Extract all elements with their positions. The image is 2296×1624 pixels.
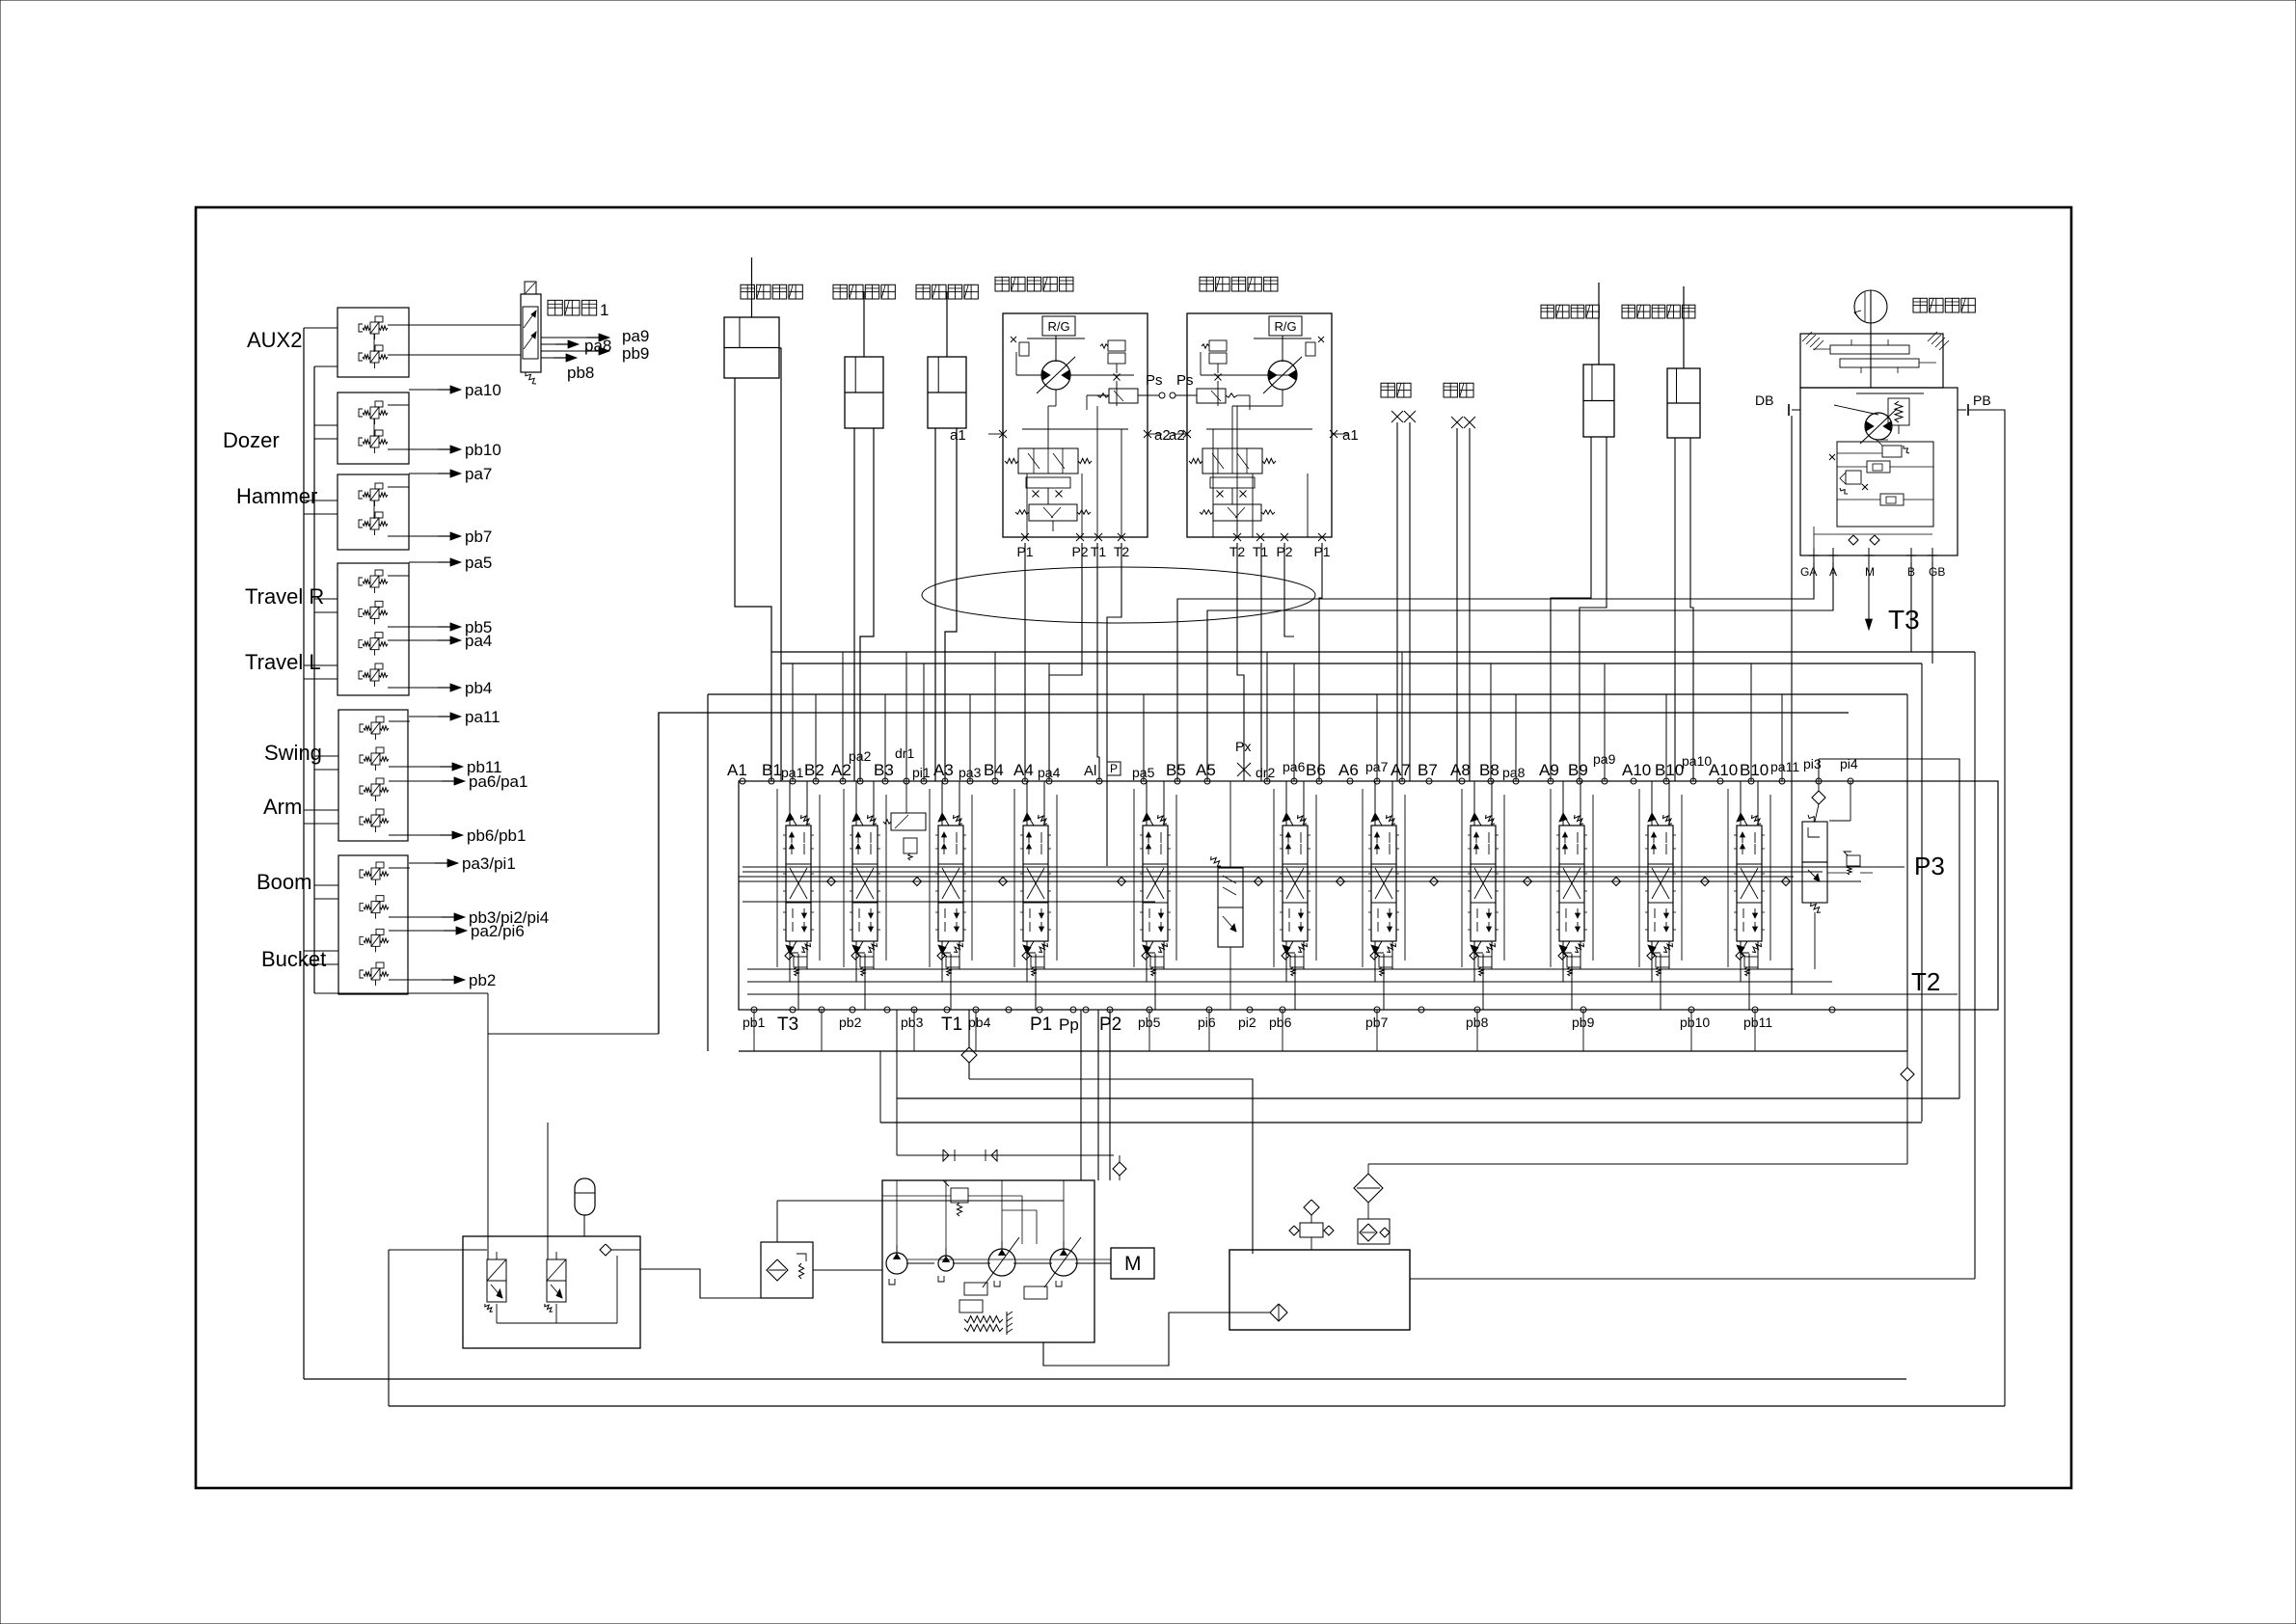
Px cross (1237, 763, 1251, 776)
travel shuttle valve (1029, 504, 1077, 521)
svg-text:pa5: pa5 (465, 554, 492, 572)
boom cylinder lines (853, 428, 855, 781)
travel brake valve (1209, 340, 1227, 351)
swing ports GA A M B GB (1800, 527, 1945, 579)
bus check diamonds (827, 878, 1791, 886)
svg-text:Ps: Ps (1176, 372, 1194, 389)
swing priority valve pi3 pi4 (1802, 781, 1873, 969)
svg-text:Pp: Pp (1059, 1015, 1079, 1034)
bottom bus 1458 (389, 1405, 2005, 1407)
pilot valve block SwingArm (338, 710, 408, 841)
tank breather (1289, 1200, 1334, 1250)
label left-travel-motor (CJK) (995, 277, 1009, 291)
arm cylinder lines (934, 428, 936, 781)
pilot output pb3/pi2/pi4 (409, 908, 549, 927)
svg-text:P2: P2 (1099, 1015, 1121, 1035)
breaker drop lines (1396, 422, 1398, 781)
T3 drain arrow (1868, 562, 1870, 625)
svg-text:GB: GB (1929, 565, 1945, 579)
solenoid valve 1 (487, 1259, 506, 1281)
svg-text:B6: B6 (1306, 761, 1326, 779)
svg-text:Ps: Ps (1146, 372, 1163, 389)
svg-text:dr1: dr1 (895, 745, 914, 761)
blade cylinder lines (1674, 438, 1676, 781)
svg-text:B2: B2 (804, 761, 824, 779)
travel motor relief stub (1019, 342, 1029, 356)
main pump 1 (988, 1249, 1015, 1276)
label breaker (CJK) (1381, 383, 1394, 397)
valve spool V10 dozer (1645, 813, 1676, 954)
valve spool V3 arm (935, 813, 966, 954)
label bucket-cylinder (CJK) (741, 284, 754, 299)
tilt cylinder lines (1551, 437, 1591, 781)
spool V1 boom stem wires (789, 781, 791, 826)
travel motor ports (1016, 533, 1330, 559)
svg-text:a1: a1 (1342, 427, 1359, 444)
svg-text:pi4: pi4 (1840, 756, 1858, 771)
svg-text:GA: GA (1800, 565, 1817, 579)
right travel motor box (1187, 313, 1332, 537)
svg-text:T1: T1 (1091, 544, 1107, 559)
manifold lower bus lines (747, 968, 1794, 970)
svg-text:pb6/pb1: pb6/pb1 (467, 826, 526, 845)
svg-text:pb2: pb2 (469, 971, 496, 989)
pb drop wires below manifold (754, 1010, 1755, 1051)
svg-text:DB: DB (1755, 392, 1773, 408)
label swing-motor (CJK) (1913, 298, 1927, 312)
svg-text:Dozer: Dozer (223, 428, 280, 452)
pump internal wires (897, 1180, 1064, 1257)
spool V4 travel-left stem wires (1026, 781, 1028, 826)
svg-text:A1: A1 (727, 761, 747, 779)
svg-text:R/G: R/G (1047, 319, 1069, 334)
svg-text:pb4: pb4 (465, 679, 492, 697)
svg-text:P3: P3 (1914, 852, 1945, 880)
left travel motor box (1003, 313, 1148, 537)
pilot output pa2/pi6 (409, 922, 525, 940)
accumulator manifold block (463, 1236, 640, 1348)
svg-text:pa3/pi1: pa3/pi1 (462, 854, 516, 873)
hydraulic tank (1229, 1250, 1410, 1330)
valve spool V5 swing (1140, 813, 1171, 954)
pump swash ground (964, 1312, 1013, 1335)
svg-text:B4: B4 (984, 761, 1004, 779)
svg-text:pb11: pb11 (1743, 1015, 1772, 1030)
svg-text:B7: B7 (1418, 761, 1438, 779)
tank inlet riser check (1901, 1051, 1914, 1164)
svg-text:Travel L: Travel L (245, 650, 321, 674)
travel motor hydraulic motor (1268, 361, 1297, 390)
svg-text:pa8: pa8 (584, 337, 611, 355)
hose bundle ellipse (922, 567, 1315, 623)
manifold bottom port labels (743, 1015, 1772, 1035)
valve spool V11 tilt (1734, 813, 1765, 954)
svg-text:T3: T3 (1888, 605, 1920, 635)
tilt cylinder (1583, 365, 1614, 437)
swing DB line down (1791, 416, 1793, 994)
travel straight valve (1211, 781, 1243, 1010)
travel motor hydraulic motor (1041, 361, 1070, 390)
svg-text:pa8: pa8 (1502, 765, 1526, 780)
pilot output pb5 (409, 618, 492, 636)
pilot bus lines above manifold (708, 652, 1975, 1051)
label arm-cylinder (CJK) (916, 284, 930, 299)
aux port marks (1451, 417, 1463, 428)
breaker port marks (1391, 411, 1403, 422)
svg-text:a2: a2 (1169, 427, 1185, 444)
pilot filter block (761, 1201, 1064, 1298)
label tilt-cylinder (CJK) (1541, 305, 1554, 318)
svg-text:B8: B8 (1479, 761, 1499, 779)
svg-text:A3: A3 (933, 761, 954, 779)
check valve row y1198 (897, 1010, 1126, 1180)
valve spool V1 boom (783, 813, 814, 954)
svg-text:Hammer: Hammer (236, 484, 317, 508)
svg-text:B3: B3 (874, 761, 894, 779)
spool V5 swing stem wires (1146, 781, 1148, 826)
outer lower bus 1090 (658, 713, 660, 1034)
svg-text:pb10: pb10 (465, 441, 501, 459)
svg-text:A5: A5 (1196, 761, 1216, 779)
manifold internal bus 2 (743, 871, 1823, 873)
pump assembly block (882, 1180, 1094, 1342)
right riser 1978 (1906, 694, 1908, 1051)
travel motor side ports a1 a2 (950, 427, 1359, 444)
pilot bus risers (771, 652, 1782, 781)
svg-text:A10: A10 (1709, 761, 1738, 779)
manifold top port labels (727, 739, 1858, 780)
svg-text:Px: Px (1235, 739, 1251, 754)
pilot output pa6/pa1 (409, 772, 527, 791)
pilot output pa11 (409, 708, 500, 726)
pilot output pa3/pi1 (409, 854, 516, 873)
travel motor R/G gearbox (1269, 316, 1302, 336)
bucket cylinder lines (735, 378, 771, 781)
svg-text:A6: A6 (1338, 761, 1359, 779)
svg-text:pb10: pb10 (1680, 1015, 1710, 1030)
boom cylinder (845, 357, 883, 428)
accumulator block wires (488, 993, 617, 1323)
label right-travel-motor (CJK) (1200, 277, 1213, 291)
right travel motor drop lines (1237, 543, 1244, 781)
solenoid valve 2 (547, 1259, 566, 1281)
svg-text:M: M (1124, 1253, 1142, 1275)
svg-text:pa2/pi6: pa2/pi6 (471, 922, 525, 940)
pilot output pa10 (409, 381, 501, 399)
spool V11 tilt stem wires (1740, 781, 1742, 826)
svg-text:P2: P2 (1071, 544, 1088, 559)
svg-text:T3: T3 (777, 1015, 798, 1035)
svg-text:pi2: pi2 (1238, 1015, 1256, 1030)
pilot output pb6/pb1 (409, 826, 526, 845)
travel motor internal wires (1016, 352, 1134, 537)
blade cylinder (1667, 368, 1700, 438)
manifold internal bus P3 (743, 866, 1904, 868)
spool V9 aux2 stem wires (1562, 781, 1564, 826)
spool V7 hammer stem wires (1374, 781, 1376, 826)
spool V2 bucket stem wires (855, 781, 857, 826)
spool V8 aux stem wires (1473, 781, 1475, 826)
main manifold body (739, 781, 1998, 1010)
svg-text:B5: B5 (1166, 761, 1186, 779)
travel motor internal wires (1201, 352, 1312, 537)
manifold top port circles (740, 778, 1853, 784)
pilot box internal output wires (388, 325, 410, 980)
compensator sub valves (791, 953, 798, 957)
pilot output pb7 (409, 528, 492, 546)
valve spool V4 travel-left (1020, 813, 1051, 954)
travel shuttle valve (1213, 504, 1261, 521)
travel counterbalance valve (1018, 448, 1078, 474)
bucket cylinder (724, 317, 779, 378)
valve spool V7 hammer (1368, 813, 1399, 954)
spool V10 dozer stem wires (1651, 781, 1653, 826)
label aux-tool (CJK) (1444, 383, 1457, 397)
svg-text:a1: a1 (950, 427, 966, 444)
pi3 riser stub (1818, 759, 1820, 781)
right riser 2048 to tank bus (1974, 652, 1976, 1279)
tank return filter (1354, 1164, 1907, 1244)
svg-text:pb9: pb9 (622, 344, 649, 363)
svg-text:pa7: pa7 (465, 465, 492, 483)
swing PB line right and down (1968, 410, 2005, 1406)
T1 check valve and line to tank (961, 1010, 1253, 1254)
svg-text:AUX2: AUX2 (247, 328, 302, 352)
svg-text:B10: B10 (1655, 761, 1684, 779)
gear pump (938, 1256, 954, 1271)
label selector-valve-1 (CJK) (548, 300, 562, 315)
swing motor A B lines to manifold (1177, 562, 1814, 781)
svg-text:pi1: pi1 (912, 765, 931, 780)
swing B line down (1910, 562, 1912, 652)
svg-text:pa9: pa9 (622, 327, 649, 345)
pilot valve block BoomBucket (338, 855, 408, 994)
svg-text:T1: T1 (1253, 544, 1269, 559)
pilot output pb2 (409, 971, 496, 989)
svg-text:pb4: pb4 (968, 1015, 991, 1030)
valve spool V6 travel-right (1280, 813, 1310, 954)
bottom bus 1430 (304, 1378, 1906, 1380)
manifold gallery verticals (777, 789, 1770, 967)
svg-text:Al: Al (1084, 763, 1096, 779)
accumulator block output to filter (640, 1269, 761, 1298)
swing motor group (1800, 290, 1958, 555)
lower long bus 1139 (897, 1097, 1959, 1099)
svg-text:pa10: pa10 (1682, 753, 1712, 769)
svg-text:A9: A9 (1539, 761, 1559, 779)
svg-text:pa11: pa11 (1770, 759, 1799, 774)
pilot output pa5 (409, 554, 492, 572)
label blade-cylinder (CJK) (1622, 305, 1635, 318)
svg-text:pa4: pa4 (465, 632, 492, 650)
svg-text:B10: B10 (1740, 761, 1769, 779)
svg-text:A8: A8 (1450, 761, 1471, 779)
svg-text:PB: PB (1973, 392, 1991, 408)
selector outputs pa9 pa8 pb9 pb8 (541, 327, 649, 382)
svg-text:dr2: dr2 (1256, 765, 1275, 780)
pilot pump (886, 1253, 907, 1274)
pump relief valve (882, 1180, 1022, 1216)
Ps pilot valves between travel motors (1087, 372, 1250, 410)
svg-text:T1: T1 (941, 1015, 962, 1035)
pilot valve block Hammer (338, 474, 409, 550)
label boom-cylinder (CJK) (833, 284, 847, 299)
pi4 line to right riser 2032 (1819, 759, 1959, 1098)
svg-text:pa10: pa10 (465, 381, 501, 399)
svg-text:B9: B9 (1568, 761, 1588, 779)
left pilot bus wires (304, 328, 338, 1379)
swing GB line down (1931, 562, 1933, 663)
pilot output pb10 (409, 441, 501, 459)
pump regulator valves (964, 1283, 987, 1295)
svg-text:Arm: Arm (263, 795, 302, 819)
svg-text:pb6: pb6 (1269, 1015, 1292, 1030)
left travel motor drop lines (1024, 543, 1026, 781)
svg-text:T2: T2 (1911, 967, 1940, 996)
aux drop lines (1456, 428, 1458, 781)
P1 Pp P2 pump lines (1080, 1010, 1082, 1180)
svg-text:1: 1 (600, 301, 608, 319)
svg-text:pb3: pb3 (901, 1015, 924, 1030)
tank suction strainer (1169, 1304, 1287, 1321)
svg-text:pb7: pb7 (465, 528, 492, 546)
spool V3 arm stem wires (941, 781, 943, 826)
svg-text:A10: A10 (1622, 761, 1651, 779)
pilot output pb11 (409, 758, 502, 776)
svg-text:R/G: R/G (1274, 319, 1296, 334)
accumulator block check valve (600, 1244, 611, 1256)
selector valve 1 (521, 282, 541, 384)
valve spool V9 aux2 (1556, 813, 1587, 954)
pilot valve block TravelRL (338, 563, 409, 695)
svg-text:P1: P1 (1030, 1015, 1052, 1035)
travel motor relief stub (1306, 342, 1315, 356)
manifold internal bus 3 (743, 901, 1155, 903)
wire AUX2 to selector (409, 324, 521, 326)
swing DB PB ports (1792, 409, 1800, 411)
pilot output pb4 (409, 679, 492, 697)
tank outlet to right bus (1410, 1278, 1975, 1280)
svg-text:P: P (1110, 762, 1118, 775)
svg-text:pa11: pa11 (465, 708, 500, 726)
main manifold outer boundary (659, 713, 1849, 1034)
valve spool V8 aux (1468, 813, 1499, 954)
pilot valve block AUX2 (338, 308, 409, 377)
svg-text:A4: A4 (1013, 761, 1034, 779)
pilot valve block Dozer (338, 392, 409, 464)
drawing border frame (196, 207, 2071, 1488)
svg-text:Swing: Swing (264, 741, 322, 765)
suction loop (1043, 1313, 1169, 1366)
spool V6 travel-right stem wires (1285, 781, 1287, 826)
travel counterbalance valve (1202, 448, 1262, 474)
svg-text:pi6: pi6 (1198, 1015, 1216, 1030)
lower long bus 1164 (880, 1122, 1922, 1123)
dr1 solenoid valve (883, 781, 926, 860)
pilot output pa7 (409, 465, 492, 483)
arm cylinder (928, 357, 966, 428)
travel brake valve (1108, 340, 1125, 351)
accumulator (575, 1178, 595, 1236)
left riser bus to accumulator (314, 992, 488, 994)
svg-text:M: M (1865, 565, 1875, 579)
manifold internal bus 2c (739, 880, 1861, 882)
manifold bottom port circles (751, 1007, 1835, 1013)
pump shaft (906, 1262, 934, 1264)
travel motor R/G gearbox (1042, 316, 1075, 336)
pilot output pa4 (409, 632, 492, 650)
valve spool V2 bucket (850, 813, 880, 954)
electric motor M (1111, 1248, 1154, 1279)
manifold internal bus 2b (739, 876, 1794, 878)
main pump 2 (1050, 1249, 1077, 1276)
svg-text:pb8: pb8 (567, 364, 594, 382)
svg-text:A7: A7 (1391, 761, 1411, 779)
right riser 1993 (1921, 663, 1923, 1122)
svg-text:Travel R: Travel R (245, 584, 324, 609)
svg-text:pa6/pa1: pa6/pa1 (469, 772, 527, 791)
svg-text:pb2: pb2 (839, 1015, 862, 1030)
